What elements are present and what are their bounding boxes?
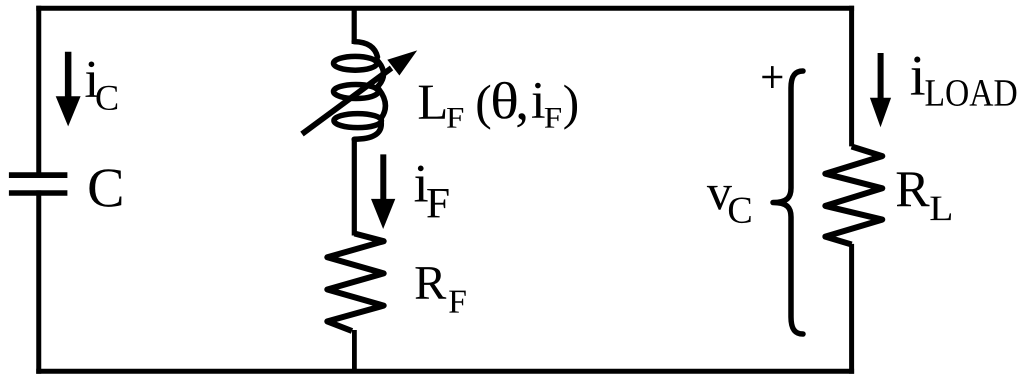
plus polarity sign xyxy=(762,66,782,88)
wire: right side lower segment xyxy=(849,246,854,371)
label RF xyxy=(416,267,466,313)
inductor LF: variable 3-loop coil xyxy=(334,42,386,140)
label iC xyxy=(86,61,118,110)
wire: top side of outer loop xyxy=(39,6,852,11)
current arrow iLOAD xyxy=(870,53,891,127)
resistor RF xyxy=(327,234,383,332)
capacitor C xyxy=(9,175,68,193)
label RL xyxy=(897,172,951,220)
label iF xyxy=(415,165,449,217)
current arrow iC xyxy=(56,52,81,127)
voltage brace for vC xyxy=(773,71,803,334)
current arrow iF xyxy=(371,154,395,229)
wire: middle branch from top side to inductor xyxy=(352,6,357,44)
resistor RL xyxy=(825,147,882,245)
label iLOAD xyxy=(911,57,1016,106)
wire: middle branch between inductor and resistor RF xyxy=(352,139,357,236)
wire: left side upper segment xyxy=(36,8,41,175)
wire: middle branch from resistor RF to bottom side xyxy=(352,330,357,371)
capacitor label C xyxy=(89,169,121,207)
wire: right side upper segment xyxy=(849,8,854,144)
label vC xyxy=(707,186,751,223)
wire: left side lower segment xyxy=(36,193,41,371)
label LF(theta,iF) xyxy=(419,82,577,130)
wire: bottom side of outer loop xyxy=(39,369,852,374)
variable-inductor diagonal arrow xyxy=(302,50,417,134)
